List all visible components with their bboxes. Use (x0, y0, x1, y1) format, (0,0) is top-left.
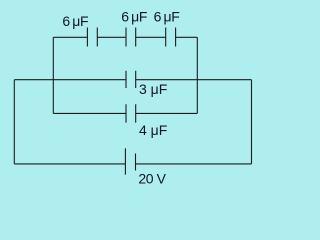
svg-text:20 V: 20 V (138, 171, 166, 187)
svg-text:6 μF: 6 μF (154, 8, 180, 24)
svg-text:6 μF: 6 μF (121, 8, 147, 24)
svg-text:3 μF: 3 μF (139, 81, 167, 97)
svg-text:6 μF: 6 μF (62, 13, 88, 29)
svg-text:4 μF: 4 μF (139, 122, 167, 138)
